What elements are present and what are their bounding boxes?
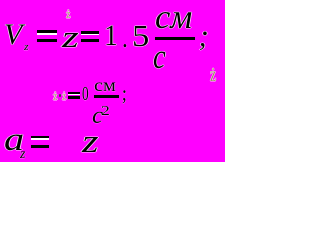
semicolon comma (199, 24, 206, 51)
equals sign 3 white strip (31, 138, 49, 140)
subscript z of a (20, 147, 25, 161)
equals sign 3 bottom bar (31, 145, 49, 148)
equals sign 2 white strip (81, 34, 99, 36)
small equals white strip (68, 94, 80, 96)
fraction bar cm over s (155, 37, 195, 40)
digit 5 (132, 21, 149, 52)
variable z-dot (62, 22, 79, 53)
value 0 (82, 85, 89, 105)
variable V (4, 21, 22, 50)
small equals top bar (68, 92, 80, 94)
equals sign 1 top bar (37, 30, 57, 33)
digit 1 (104, 22, 118, 51)
semicolon dot (201, 9, 209, 40)
tiny z-dot glyph 1 (53, 90, 57, 102)
exponent 2 (101, 104, 110, 118)
tiny z-dot glyph 2 (62, 90, 66, 102)
numerator cm (Cyrillic) (155, 1, 192, 35)
equals sign 1 bottom bar (37, 39, 57, 42)
equals sign 2 bottom bar (81, 39, 99, 42)
small numerator cm (94, 77, 116, 95)
variable z-ddot (82, 126, 99, 159)
equals sign 3 top bar (31, 136, 49, 139)
middle dot between tiny glyphs (59, 94, 61, 96)
small equals bottom bar (68, 96, 80, 98)
decimal point (122, 24, 128, 52)
denominator s (Cyrillic) (153, 40, 166, 75)
equals sign 2 top bar (81, 31, 99, 34)
small semicolon comma (122, 83, 127, 105)
equals sign 1 white strip (37, 33, 57, 35)
small fraction bar (94, 95, 120, 98)
tiny dot-accent glyph over z (66, 8, 71, 21)
small semicolon dot (122, 75, 127, 98)
denominator c italic (92, 104, 103, 128)
tiny stray glyph right (210, 65, 216, 85)
variable a (4, 124, 24, 157)
subscript z of V (24, 42, 29, 53)
